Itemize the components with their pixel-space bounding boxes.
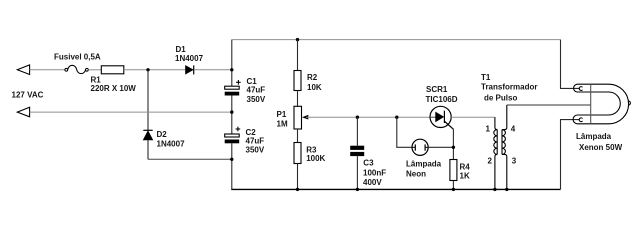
transformer T1 secondary winding (pins 4-3) <box>502 105 517 189</box>
diode D2 1N4007 <box>143 130 185 149</box>
junction node at R1/D2 branch <box>146 68 149 71</box>
svg-text:D1: D1 <box>176 45 187 54</box>
svg-text:TIC106D: TIC106D <box>426 95 458 104</box>
wire bottom rail <box>231 188 560 190</box>
junction dot bottom rail R3 <box>296 188 299 191</box>
thyristor SCR1 TIC106D <box>426 85 458 129</box>
svg-text:D2: D2 <box>157 130 168 139</box>
svg-text:1: 1 <box>486 124 491 133</box>
svg-text:100nF: 100nF <box>363 168 386 177</box>
svg-text:1N4007: 1N4007 <box>175 54 204 63</box>
resistor R4 1K <box>450 160 470 181</box>
label T1 Transformador de Pulso <box>481 73 537 103</box>
svg-text:350V: 350V <box>246 146 265 155</box>
svg-text:47uF: 47uF <box>246 136 265 145</box>
junction dot neon branch <box>395 116 398 119</box>
wire R2 to P1 <box>297 91 299 107</box>
capacitor C2 47uF 350V <box>225 127 265 155</box>
wire fuse to R1 <box>88 69 101 71</box>
resistor R3 100K <box>294 143 326 164</box>
wire wiper to C3 <box>356 117 358 146</box>
wire rail to R2 <box>297 40 299 71</box>
junction dot neon/gate <box>452 146 455 149</box>
wire left edge upper segment <box>231 40 233 87</box>
svg-text:400V: 400V <box>363 178 382 187</box>
wire R1 to D1 <box>124 69 186 71</box>
xenon flash tube Lampada Xenon 50W <box>573 84 630 152</box>
resistor R2 10K <box>294 71 322 92</box>
svg-text:Fusivel 0,5A: Fusivel 0,5A <box>54 52 101 61</box>
wire C3 to bottom rail <box>356 156 358 189</box>
svg-text:C3: C3 <box>363 159 374 168</box>
wire D2 to left edge <box>148 158 232 160</box>
svg-text:R3: R3 <box>306 145 317 154</box>
electrode bottom <box>579 118 582 122</box>
wire between C1 and C2 <box>231 96 233 135</box>
wire neon to gate line <box>428 146 453 148</box>
svg-text:3: 3 <box>512 156 517 165</box>
wire left edge lower segment <box>231 143 233 189</box>
junction dot D1 output <box>230 68 233 71</box>
wire bottom input to left edge <box>30 111 232 113</box>
svg-text:2: 2 <box>488 156 493 165</box>
svg-text:127 VAC: 127 VAC <box>12 91 44 100</box>
input terminal top (connector triangle) <box>17 65 29 75</box>
junction dot bottom rail R4 <box>452 188 455 191</box>
diode D1 1N4007 <box>175 45 204 75</box>
potentiometer P1 1M <box>277 106 309 129</box>
input terminal bottom (connector triangle) <box>17 107 29 117</box>
wire R4 to bottom rail <box>452 181 454 190</box>
svg-text:Lâmpada: Lâmpada <box>406 159 442 168</box>
electrode top <box>579 87 582 91</box>
capacitor C3 100nF 400V <box>350 146 386 187</box>
wire D2 anode down <box>147 140 149 160</box>
svg-text:R2: R2 <box>307 73 318 82</box>
svg-text:350V: 350V <box>247 95 266 104</box>
wire top input to fuse <box>30 69 65 71</box>
wire P1 wiper to SCR anode <box>306 116 430 118</box>
svg-text:100K: 100K <box>306 154 325 163</box>
neon lamp Lampada Neon <box>406 139 442 178</box>
junction dot bottom rail T1 pin2 <box>493 188 496 191</box>
svg-text:R4: R4 <box>460 163 471 172</box>
svg-text:1M: 1M <box>277 119 288 128</box>
svg-text:P1: P1 <box>277 110 287 119</box>
svg-text:47uF: 47uF <box>247 85 266 94</box>
trigger band <box>590 84 592 124</box>
wire top rail <box>231 39 560 41</box>
svg-text:220R X 10W: 220R X 10W <box>91 84 137 93</box>
wire P1 to R3 <box>297 129 299 143</box>
junction dot top rail R2 branch <box>296 38 299 41</box>
svg-text:10K: 10K <box>307 83 322 92</box>
transformer T1 primary winding (pins 1-2) <box>486 117 498 189</box>
wire gate down to R4 <box>452 129 454 160</box>
svg-text:Xenon 50W: Xenon 50W <box>579 143 623 152</box>
wire right edge top to lamp anode <box>561 40 580 89</box>
svg-text:de Pulso: de Pulso <box>484 93 517 102</box>
fuse F1 Fusivel 0,5A <box>54 52 101 73</box>
wire D1 to box left edge <box>194 69 232 71</box>
svg-text:SCR1: SCR1 <box>426 85 448 94</box>
capacitor C1 47uF 350V <box>225 77 266 104</box>
svg-text:1K: 1K <box>460 172 470 181</box>
svg-text:Lâmpada: Lâmpada <box>576 132 612 141</box>
trigger nub <box>628 101 630 105</box>
junction dot C3 branch <box>356 116 359 119</box>
junction dot bottom rail T1 pin3 <box>505 188 508 191</box>
wire lamp cathode to right edge bottom <box>561 120 580 190</box>
svg-text:4: 4 <box>511 124 516 133</box>
wire R3 to bottom rail <box>297 164 299 190</box>
svg-text:1N4007: 1N4007 <box>157 139 186 148</box>
wire SCR cathode to T1 <box>451 116 495 119</box>
resistor R1 220R X 10W <box>91 66 137 93</box>
junction dot bottom rail C3 <box>356 188 359 191</box>
wire wiper down to neon <box>397 117 412 147</box>
junction dot mid input <box>230 110 233 113</box>
junction dot D2 return <box>230 158 233 161</box>
svg-text:Neon: Neon <box>406 169 426 178</box>
wire T1 secondary to trigger band <box>507 104 591 106</box>
wire branch down to D2 <box>147 70 149 130</box>
svg-text:Transformador: Transformador <box>481 83 537 92</box>
svg-text:T1: T1 <box>481 73 491 82</box>
